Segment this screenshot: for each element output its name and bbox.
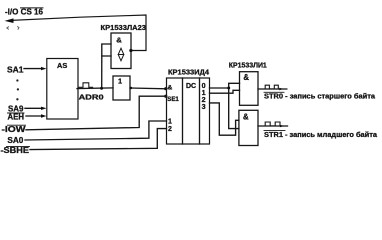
wire ADR0 bbox=[77, 87, 113, 90]
svg-text:3: 3 bbox=[202, 102, 206, 111]
signal SA9 bbox=[8, 104, 47, 113]
signal -SBHE bbox=[1, 146, 30, 155]
svg-text:КР1533ЛИ1: КР1533ЛИ1 bbox=[229, 62, 267, 69]
wire STR1 output bbox=[258, 125, 288, 127]
label КР1533ИД4 bbox=[168, 69, 209, 76]
svg-text:АЕН: АЕН bbox=[8, 112, 25, 121]
svg-text:SA0: SA0 bbox=[7, 136, 23, 145]
pulse symbol STR1 bbox=[265, 122, 280, 126]
NAND gate DD1 КР1533ЛА23 bbox=[111, 33, 131, 69]
pulse symbol STR0 bbox=[265, 85, 278, 89]
AND gate DD3.1 bbox=[240, 72, 259, 106]
address selector AS bbox=[47, 59, 78, 120]
svg-text:DC: DC bbox=[186, 83, 196, 90]
label КР1533ЛИ1 bbox=[229, 62, 267, 69]
bus arrowhead -I/O CS16 bbox=[5, 18, 14, 23]
pulse symbol ADR0 bbox=[79, 83, 93, 88]
svg-text:AS: AS bbox=[57, 61, 67, 70]
svg-text:&: & bbox=[243, 113, 249, 122]
decoder DD2 КР1533ИД4 bbox=[167, 78, 210, 144]
inverter 1 bbox=[113, 76, 130, 100]
svg-text:1: 1 bbox=[168, 118, 172, 125]
svg-text:&: & bbox=[116, 36, 122, 45]
overline CS16 bbox=[21, 7, 44, 9]
junction dot SE1 pin bbox=[164, 95, 167, 98]
wire SA0 to decoder pin 1 bbox=[25, 121, 167, 140]
signal -IOW bbox=[2, 125, 26, 134]
junction dot inverter output pin bbox=[130, 87, 132, 89]
svg-text:ADR0: ADR0 bbox=[79, 92, 104, 101]
svg-text:-I/O CS 16: -I/O CS 16 bbox=[5, 8, 44, 17]
decoder output 0 wire to gates bbox=[210, 87, 229, 89]
wire -I/O CS16 to DD1 output bbox=[9, 15, 146, 51]
AND gate DD3.2 bbox=[239, 110, 258, 145]
label STR1 bbox=[264, 131, 377, 139]
svg-text:-IOW: -IOW bbox=[2, 125, 26, 134]
signal SA1 bbox=[7, 65, 47, 74]
decoder output 2 wire to gate DD3.2 bbox=[210, 103, 239, 135]
junction dot DD1 output bbox=[129, 49, 132, 52]
label ADR0 bbox=[79, 92, 104, 101]
svg-text:-SBHE: -SBHE bbox=[1, 146, 30, 155]
svg-text:2: 2 bbox=[168, 126, 172, 133]
wire -SBHE to decoder pin 2 bbox=[30, 129, 167, 150]
decoder output 1 wire to gate DD3.1 bbox=[210, 90, 240, 93]
svg-text:КР1533ЛА23: КР1533ЛА23 bbox=[101, 23, 147, 32]
ellipsis SA2..SA8 bbox=[16, 79, 19, 100]
net -I/O CS16 label bbox=[5, 8, 44, 17]
signal AEN bbox=[8, 112, 47, 121]
wire STR0 output bbox=[258, 88, 287, 90]
label КР1533ЛА23 bbox=[101, 23, 147, 32]
signal SA0 bbox=[7, 136, 23, 145]
svg-text:&: & bbox=[243, 73, 249, 82]
svg-text:&: & bbox=[168, 84, 173, 91]
wire DD1 input tie bbox=[102, 44, 111, 56]
svg-text:1: 1 bbox=[118, 76, 122, 85]
wire DD1 inputs down to ADR0 node bbox=[101, 56, 103, 88]
svg-text:STR1 - запись младшего байта: STR1 - запись младшего байта bbox=[264, 131, 377, 139]
junction dot DC enable pin bbox=[164, 87, 167, 90]
svg-text:STR0 - запись старшего байта: STR0 - запись старшего байта bbox=[264, 93, 375, 101]
open-collector diamond symbol bbox=[118, 48, 124, 61]
junction dot ADR0 bbox=[100, 87, 103, 90]
svg-text:SA1: SA1 bbox=[7, 65, 24, 74]
svg-text:SE1: SE1 bbox=[167, 96, 179, 103]
wire -IOW to SE1 bbox=[26, 96, 167, 130]
svg-text:КР1533ИД4: КР1533ИД4 bbox=[168, 69, 209, 76]
junction dot output 0 bbox=[227, 87, 230, 90]
label STR0 bbox=[264, 93, 375, 101]
wire inverter output to DC enable bbox=[130, 87, 167, 90]
